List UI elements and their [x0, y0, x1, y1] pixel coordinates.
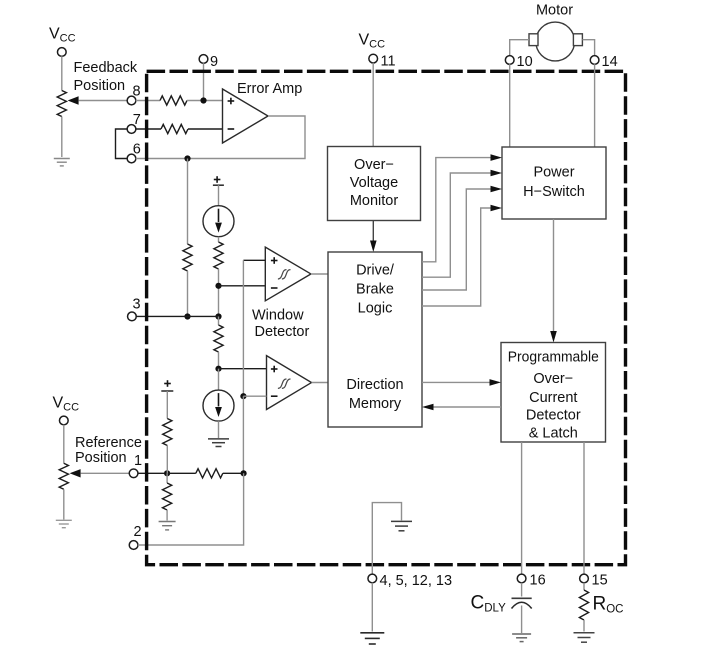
wire resistor to node C [218, 269, 220, 317]
wire pin 9 down [203, 63, 205, 100]
pin 9 [199, 55, 208, 64]
motor brush right [573, 34, 582, 46]
wire pin 1 to node H [138, 472, 167, 474]
wire pin 14 to h-switch [594, 64, 596, 147]
block Drive-Brake Logic / Direction Memory [328, 252, 422, 427]
wire drive to h-switch 1 [422, 158, 491, 262]
pin 4,5,12,13 [368, 574, 377, 583]
svg-text:Memory: Memory [349, 396, 402, 412]
wire pin3 to lower threshold resistor [218, 317, 220, 326]
wire resistor to ground [166, 510, 168, 521]
wire U3 minus input stub [243, 395, 266, 397]
wire error amp output feedback loop [136, 116, 305, 159]
wire detector to pin 16 [521, 442, 523, 574]
svg-text:Position: Position [75, 450, 127, 466]
wire node B down [187, 159, 189, 245]
node E (pin3 junction right) [215, 313, 221, 319]
current source I1 [203, 206, 234, 237]
wire drive to h-switch 3 [422, 189, 491, 290]
resistor R(pin8) [160, 96, 187, 105]
arrowhead h-switch 3 [491, 186, 503, 193]
svg-text:Logic: Logic [358, 300, 393, 316]
pin 1 [129, 469, 138, 478]
pot wiper arrow (feedback) [68, 96, 79, 104]
ground (below reference pot) [56, 519, 72, 521]
pin 8 [127, 96, 136, 105]
pin 7 [127, 125, 136, 134]
wire detector to direction memory [433, 406, 501, 408]
svg-text:4, 5, 12, 13: 4, 5, 12, 13 [380, 573, 453, 589]
svg-text:Monitor: Monitor [350, 193, 399, 209]
resistor R(ref divider upper) [163, 419, 172, 446]
wire comparator U3 output [312, 382, 329, 384]
hysteresis symbol U3 [278, 379, 287, 388]
wire resistor to inverting input [188, 128, 223, 130]
wire window sense line (lower) [242, 396, 244, 473]
wire pin 8 to resistor [136, 100, 160, 102]
svg-text:Error Amp: Error Amp [237, 81, 302, 97]
wire Vcc to pot [61, 56, 63, 90]
svg-text:Feedback: Feedback [74, 60, 138, 76]
wire plus to current source I1 [218, 185, 220, 206]
wire detector to pin 15 [583, 442, 585, 574]
svg-text:3: 3 [133, 297, 141, 313]
resistor R(reference series) [196, 469, 223, 478]
svg-text:1: 1 [134, 453, 142, 469]
wire h-switch to current detector [553, 219, 555, 331]
wire node H to lower resistor [166, 473, 168, 483]
svg-text:Window: Window [252, 308, 304, 324]
svg-text:Motor: Motor [536, 3, 573, 19]
wire Vcc to reference pot [63, 425, 65, 464]
wire R_OC to ground [583, 620, 585, 632]
resistor R(divider upper-left) [183, 244, 192, 271]
current source I2 [203, 390, 234, 421]
ground (pins 4,5,12,13) [360, 632, 384, 634]
svg-text:15: 15 [592, 573, 608, 589]
wire comparator U2 output [311, 273, 328, 275]
pin 14 [590, 56, 599, 65]
node A (noninverting input) [200, 97, 206, 103]
svg-text:& Latch: & Latch [529, 426, 578, 442]
wire resistor to node F [218, 352, 220, 369]
wire motor left to pin 10 [510, 40, 529, 56]
wire node H to resistor [167, 472, 196, 474]
arrowhead h-switch 2 [491, 170, 503, 177]
svg-text:Drive/: Drive/ [356, 263, 395, 279]
node B (feedback loop) [184, 155, 190, 161]
wire resistor to node I [223, 472, 244, 474]
wire drive to h-switch 4 [422, 208, 491, 306]
node H [164, 470, 170, 476]
pot wiper arrow (reference) [70, 469, 81, 477]
pin 2 [129, 541, 138, 550]
ground (substrate) [391, 520, 412, 522]
comparator U2 (window upper) [265, 247, 311, 301]
svg-text:Voltage: Voltage [350, 175, 398, 191]
node G (sense to U3 minus) [240, 393, 246, 399]
svg-text:11: 11 [381, 54, 396, 70]
wire drive to h-switch 2 [422, 173, 491, 277]
wire plus to resistor [166, 391, 168, 419]
svg-text:H−Switch: H−Switch [523, 184, 585, 200]
arrowhead h-switch 1 [491, 154, 503, 161]
svg-text:Programmable: Programmable [508, 350, 599, 366]
wire monitor to drive logic [372, 221, 374, 244]
wire substrate ground [372, 503, 401, 575]
pin 3 [128, 312, 137, 321]
node D (pin3 junction left) [184, 313, 190, 319]
arrowhead into current detector [550, 331, 557, 343]
wire pin 15 to resistor [583, 583, 585, 590]
arrowhead monitor to drive logic [370, 241, 377, 253]
wire pin 2 to sense line [138, 473, 244, 545]
ground (below current source I2) [208, 438, 229, 440]
comparator U3 (window lower) [267, 356, 312, 410]
wire motor right to pin 14 [582, 40, 594, 56]
wire node F to comparator plus [219, 368, 267, 370]
resistor R(threshold upper) [214, 242, 223, 269]
potentiometer (feedback position) [57, 91, 66, 117]
IC boundary (dashed) [147, 71, 626, 564]
svg-text:2: 2 [134, 524, 142, 540]
wire node C to comparator minus [219, 285, 266, 287]
wire resistor to node A [187, 100, 223, 102]
svg-text:Current: Current [529, 390, 577, 406]
wire divider-left to pin3 line [187, 271, 189, 317]
motor brush left [529, 34, 538, 46]
svg-text:Reference: Reference [75, 435, 142, 451]
wire pot wiper to pin 8 [79, 100, 128, 102]
wire pin 3 line [136, 315, 218, 317]
ground (reference divider) [159, 521, 176, 523]
svg-text:16: 16 [530, 573, 546, 589]
svg-text:Position: Position [74, 78, 126, 94]
node C (upper threshold) [215, 283, 221, 289]
wire comparator U2 plus input stub [243, 259, 265, 261]
ground (below feedback pot) [54, 158, 70, 160]
wire node F to current source I2 [218, 369, 220, 390]
pin 6 [127, 154, 136, 163]
op-amp U1 Error Amp [223, 89, 269, 143]
supply plus terminal (upper) [214, 179, 221, 181]
pin 16 [517, 574, 526, 583]
wire resistor to node H [166, 446, 168, 474]
node F (lower threshold) [215, 366, 221, 372]
svg-text:Brake: Brake [356, 282, 394, 298]
pin 15 [580, 574, 589, 583]
wire direction memory to detector [422, 381, 490, 383]
motor M1 [536, 22, 575, 61]
arrowhead detector input [490, 379, 502, 386]
svg-text:Power: Power [533, 164, 574, 180]
resistor R_OC [579, 590, 588, 620]
svg-text:9: 9 [210, 54, 218, 70]
svg-text:Detector: Detector [526, 408, 581, 424]
ground (C_DLY) [512, 633, 531, 635]
resistor R(threshold lower) [214, 325, 223, 352]
hysteresis symbol U2 [278, 270, 287, 279]
supply plus terminal (lower) [164, 383, 171, 385]
wire I2 to ground [218, 421, 220, 438]
wire pot wiper to pin 1 [81, 472, 130, 474]
block Programmable Over-Current Detector and Latch [501, 343, 606, 443]
pin 10 [505, 56, 514, 65]
resistor R(pin7) [161, 124, 188, 133]
wire pins 4,5,12,13 to ground [371, 583, 373, 632]
svg-text:Over−: Over− [354, 157, 394, 173]
pin 11 [369, 54, 378, 63]
svg-text:Direction: Direction [346, 377, 403, 393]
wire pin 16 to capacitor [521, 583, 523, 597]
resistor R(ref divider lower) [163, 483, 172, 510]
block Power H-Switch [502, 147, 606, 219]
arrowhead h-switch 4 [491, 205, 503, 212]
svg-text:Over−: Over− [533, 371, 573, 387]
wire capacitor to ground [521, 606, 523, 634]
wire pin 11 to monitor [372, 63, 374, 147]
capacitor C_DLY [512, 597, 532, 599]
svg-text:14: 14 [602, 54, 618, 70]
wire window sense line (upper) [242, 260, 244, 396]
wire pin 10 to h-switch [509, 64, 511, 147]
block Over-Voltage Monitor [328, 147, 421, 221]
wire pin 7 to resistor [136, 128, 161, 130]
wire pins 7-6 external link [116, 129, 128, 159]
Vcc terminal (feedback) [57, 48, 66, 57]
Vcc terminal (reference) [59, 416, 68, 425]
ground (R_OC) [574, 632, 595, 634]
svg-text:10: 10 [517, 54, 533, 70]
wire I1 to resistor [218, 237, 220, 242]
svg-text:Detector: Detector [255, 324, 310, 340]
node I [241, 470, 247, 476]
potentiometer (reference position) [59, 463, 68, 489]
arrowhead direction memory input [422, 404, 434, 411]
